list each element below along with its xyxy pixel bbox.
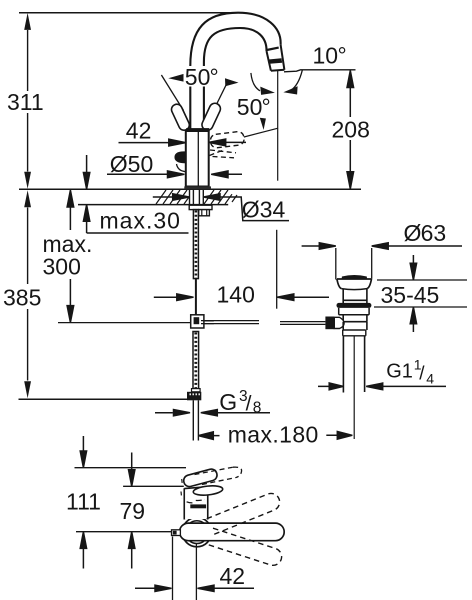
dashed spout hidden lines right: [210, 150, 237, 158]
dim 111 upper segment: [80, 436, 86, 468]
spout arc inner: [204, 28, 267, 130]
svg-text:10: 10: [313, 43, 339, 69]
svg-text:311: 311: [7, 89, 44, 115]
drain collar: [343, 330, 366, 336]
plan: hidden dashes inside tube: [187, 499, 205, 502]
plan view: lever top reference line: [75, 467, 187, 469]
svg-text:50: 50: [237, 94, 263, 120]
dim max.300 line lower: [67, 279, 74, 322]
plan: pop-up rod tab: [172, 530, 181, 536]
svg-text:°: °: [338, 43, 347, 69]
plan: tab dark dot: [173, 531, 177, 535]
deck hatching left: [156, 190, 189, 204]
washer under deck: [189, 205, 212, 209]
aerator left edge: [267, 51, 271, 71]
svg-text:300: 300: [43, 254, 81, 280]
svg-text:50: 50: [185, 64, 211, 90]
pop-up rod knob lower outline: [177, 164, 186, 172]
dim 208 lower arrow: [347, 140, 354, 189]
braided hose knurl: [194, 333, 197, 391]
svg-text:35-45: 35-45: [381, 282, 440, 308]
dim max.30 top arrow: [83, 155, 89, 189]
svg-text:8: 8: [253, 400, 262, 417]
dim 79 lower segment: [129, 532, 135, 569]
mounting nut: [199, 210, 210, 216]
dim 385 vertical line: [27, 208, 29, 381]
ball knuckle: [334, 317, 344, 328]
dim 42 plan ext line right: [195, 544, 197, 600]
svg-text:max.30: max.30: [100, 208, 181, 234]
dim 140 left arrow: [154, 294, 194, 301]
svg-text:208: 208: [332, 117, 370, 143]
threaded rod (braided upper): [193, 210, 198, 279]
spout tip projection line: [277, 71, 279, 181]
G3/8 knurled nut: [187, 392, 201, 401]
plan: lever capsule up-right solid: [182, 468, 218, 488]
svg-text:111: 111: [66, 489, 101, 515]
drain center line: [353, 336, 355, 439]
hose end tube: [193, 400, 198, 440]
drain neck: [343, 289, 367, 303]
hose collar: [192, 389, 201, 392]
dim 42 plan left arrow: [135, 585, 172, 591]
cross fitting: [191, 315, 204, 328]
svg-text:max.180: max.180: [228, 421, 319, 447]
top reference line (spout height): [19, 12, 238, 14]
dim 111 lower segment: [80, 532, 86, 569]
svg-text:Ø50: Ø50: [110, 151, 153, 177]
swivel arc right: [291, 70, 303, 90]
dim d50 left arrow+underline: [107, 171, 184, 178]
deck hatching right: [204, 190, 237, 204]
label 50 deg handle (white backed): [184, 66, 224, 87]
dim d34 leader to label: [220, 197, 289, 221]
pull rod level reference line: [58, 322, 191, 324]
plan: spout nozzle ellipse: [193, 485, 223, 497]
swivel arc left: [251, 73, 260, 91]
plan: hidden dashes left of tube: [181, 479, 183, 499]
dim d34 right arrowhead: [204, 194, 221, 200]
dim max.30 bottom arrow + leader: [83, 205, 188, 233]
dim 42 plan right arrow + line: [198, 585, 255, 591]
handle fan left ray: [161, 75, 183, 111]
dim 35-45 down arrow: [410, 255, 416, 280]
dim d50 right arrow: [211, 171, 242, 178]
svg-text:/: /: [419, 364, 425, 385]
drain tail tube: [343, 336, 364, 393]
plan: spout tube block: [184, 487, 207, 520]
aerator right edge: [281, 45, 285, 70]
swivel leader line: [244, 128, 278, 137]
dim 311 vertical line: [27, 30, 29, 172]
mounting deck bottom line: [78, 204, 228, 206]
drain flange sides: [337, 279, 372, 289]
aerator bottom edge: [271, 69, 285, 72]
plan: lever pill (solid, pointing right): [180, 523, 285, 541]
plan: dashed lever pill lower: [208, 528, 284, 567]
dim 79 upper segment: [129, 453, 135, 487]
svg-text:4: 4: [426, 371, 434, 387]
svg-text:42: 42: [220, 563, 246, 589]
swivel leader arrowhead: [260, 118, 266, 130]
lever tilted left (capsule): [170, 103, 191, 132]
plan: spout block top edge: [184, 487, 206, 489]
plan view: spout top reference line: [123, 485, 184, 487]
handle 50 deg left arrowhead: [168, 74, 184, 82]
dim 385 arrow up: [24, 190, 31, 207]
G3/8 nut dots: [190, 393, 199, 395]
dim 385 arrow down: [24, 381, 31, 398]
handle fan right ray: [212, 81, 229, 115]
svg-text:42: 42: [126, 117, 152, 143]
faucet body outline: [186, 131, 209, 187]
pull rod thin section: [195, 279, 197, 315]
drain gasket (black ring): [337, 303, 372, 308]
svg-text:385: 385: [3, 285, 41, 311]
dim 35-45 up arrow: [410, 307, 416, 332]
svg-text:Ø34: Ø34: [242, 197, 286, 223]
10 deg reference line: [284, 70, 356, 72]
dim 311 arrow down: [24, 172, 31, 189]
G1 1/4 right arrow + underline: [366, 383, 446, 390]
svg-text:79: 79: [120, 498, 146, 524]
G3/8 left arrow: [155, 410, 190, 416]
faucet body top cap (dark): [186, 128, 209, 132]
dim 140 right extension line: [276, 230, 278, 309]
svg-text:°: °: [210, 64, 219, 90]
plan: body outer circle: [182, 517, 211, 546]
nut facets: [202, 210, 207, 216]
svg-text:°: °: [262, 94, 271, 120]
svg-text:140: 140: [217, 281, 255, 307]
braided hose lower: [193, 332, 199, 392]
drain body upper: [343, 315, 367, 322]
drain flange top: [337, 278, 372, 280]
pop-up rod knob (black, left of body): [174, 151, 186, 163]
dim max.180 left arrow: [198, 432, 219, 440]
plan: dark grip band on tube: [190, 504, 206, 508]
G3/8 right arrow + underline: [201, 410, 270, 416]
drain: dim d63 right arrow + underline: [372, 243, 462, 249]
threaded rod knurl: [195, 211, 198, 279]
dim 42 plan ext line left: [172, 537, 174, 600]
drain washer band: [339, 308, 369, 315]
aerator dark band: [268, 58, 282, 64]
mounting hole edges: [190, 189, 204, 204]
dashed lever closed position: [210, 131, 245, 148]
ball rod knob (black): [325, 317, 334, 330]
faucet body inner line: [197, 132, 199, 186]
drain: dim d63 left arrow: [302, 243, 336, 249]
dim d34 left arrow: [153, 194, 189, 200]
d63 extension line left: [335, 248, 337, 280]
swivel arc left arrowhead: [260, 87, 275, 95]
hose end reference line: [19, 398, 194, 400]
plan: dashed lever extension: [195, 467, 242, 484]
plan: spout tube white fill: [185, 488, 207, 519]
mounting deck top line: [19, 188, 361, 190]
plan: body inner circle: [186, 521, 209, 544]
svg-text:Ø: Ø: [404, 220, 422, 246]
svg-text:63: 63: [421, 220, 447, 246]
pop-up horizontal rod left piece: [201, 321, 259, 324]
faucet base ring: [184, 186, 211, 189]
shank lines through deck: [193, 189, 199, 205]
cross fitting right stub: [204, 321, 214, 324]
dim 311 arrow up: [24, 13, 31, 30]
plan view: center reference line: [76, 531, 172, 533]
dim 42 left arrow: [119, 139, 186, 146]
plan: dashed lever pill upper: [207, 491, 283, 535]
svg-text:/: /: [246, 393, 252, 416]
G1 1/4 left arrow: [318, 383, 343, 390]
cross fitting core: [194, 317, 200, 324]
drain flange bottom edge: [341, 289, 367, 290]
drain body lower: [343, 322, 367, 330]
dim 140 right arrow: [277, 294, 329, 301]
lever tilted right (capsule): [200, 101, 222, 131]
dim max.300 line upper: [67, 190, 74, 230]
dim 35-45 lower ext line: [374, 306, 467, 308]
dim max.180 right arrow: [326, 432, 352, 440]
dim 42 right arrow: [209, 139, 246, 146]
dim 35-45 upper ext line: [377, 279, 467, 281]
dim 208 upper arrow: [347, 71, 354, 118]
svg-text:G1: G1: [386, 361, 413, 383]
handle 50 deg right arrowhead: [225, 78, 239, 86]
pop-up horizontal rod right piece: [280, 322, 325, 325]
swivel arc right arrowhead: [283, 86, 297, 94]
svg-text:G: G: [219, 389, 237, 415]
drain plug cap (dark dome): [342, 275, 367, 279]
aerator stripe line: [267, 48, 279, 50]
d63 extension line right: [371, 248, 373, 279]
spout arc outer: [190, 13, 280, 130]
